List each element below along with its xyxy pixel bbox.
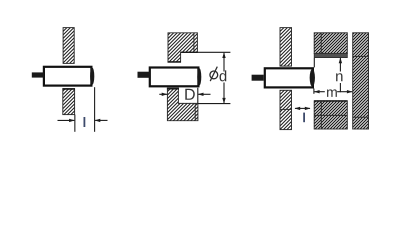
fig1 dimension l left extension line	[74, 115, 76, 132]
fig1 panel wall lower section	[63, 89, 75, 115]
fig3 housing bottom block vertical joint line	[320, 101, 322, 129]
fig2 label d	[220, 70, 227, 81]
fig3 housing bottom block horizontal joint line	[314, 114, 347, 116]
fig2 wall upper piece joint line	[193, 33, 195, 52]
fig3 label l	[303, 113, 305, 123]
fig2 dimension D right extension line	[197, 88, 199, 103]
fig3 panel wall upper section	[280, 28, 292, 67]
fig3 label m	[327, 89, 337, 97]
fig1 panel wall upper section	[63, 28, 74, 64]
fig2 label phi symbol	[210, 67, 218, 82]
fig3 shaft end cap ellipse	[310, 69, 315, 87]
fig3 housing bottom block	[314, 101, 347, 129]
fig1 dimension l right extension line	[94, 87, 96, 132]
fig2 dimension D right arrow	[198, 93, 211, 96]
fig3 dimension m right line with arrow	[337, 90, 353, 93]
fig3 panel wall lower joint line	[280, 108, 292, 110]
fig3 shaft body	[265, 68, 313, 87]
fig3 dimension m left arrow	[314, 90, 325, 93]
fig1 panel lower section thick top edge	[63, 88, 76, 90]
fig3 label n	[336, 73, 342, 81]
fig2 wall upper piece thick bottom edge right part	[181, 51, 198, 53]
fig2 label D	[185, 89, 194, 100]
fig3 dimension m left extension line	[313, 89, 315, 94]
fig3 housing top block main	[314, 33, 347, 54]
fig3 right wall column joint line upper	[353, 55, 369, 57]
fig2 wall lower piece thick top edge	[167, 88, 179, 90]
fig3 right wall column	[353, 33, 369, 129]
fig3 housing face line between block and shaft	[313, 58, 315, 67]
fig3 housing top block joint line	[320, 33, 322, 54]
fig2 dimension phi-d vertical line with arrows	[222, 52, 225, 103]
fig3 housing bottom block thick top edge	[314, 100, 347, 102]
fig3 right wall column joint line lower	[353, 116, 369, 118]
fig1 shaft tab terminal	[32, 72, 44, 77]
fig3 shaft tab terminal	[252, 75, 264, 81]
fig1 dimension l right arrow	[95, 119, 108, 122]
fig2 dimension phi-d bottom extension line	[198, 103, 230, 105]
fig2 wall upper piece thick bottom edge left column	[168, 61, 181, 63]
fig1 shaft end cap ellipse	[90, 68, 94, 85]
fig2 wall lower piece joint line	[194, 103, 196, 120]
fig2 dimension D left arrow	[159, 93, 167, 96]
fig2 wall lower piece with counterbore step	[167, 88, 198, 120]
fig2 shaft body	[150, 68, 199, 87]
fig3 dimension n vertical line lower	[339, 83, 341, 92]
fig1 dimension l left arrow	[58, 119, 75, 122]
fig2 shaft end cap ellipse	[197, 68, 201, 85]
fig3 dimension n vertical line upper with arrow	[339, 58, 342, 72]
fig3 panel wall lower section	[280, 90, 292, 129]
fig1 label l	[84, 117, 86, 127]
fig2 dimension phi-d top extension line	[198, 51, 231, 53]
fig2 shaft tab terminal	[138, 72, 150, 78]
fig1 shaft body	[44, 67, 92, 86]
fig3 dimension l double arrow	[295, 107, 311, 110]
fig3 housing top block thin plate	[314, 53, 347, 57]
fig2 wall upper piece with counterbore step	[168, 33, 197, 62]
